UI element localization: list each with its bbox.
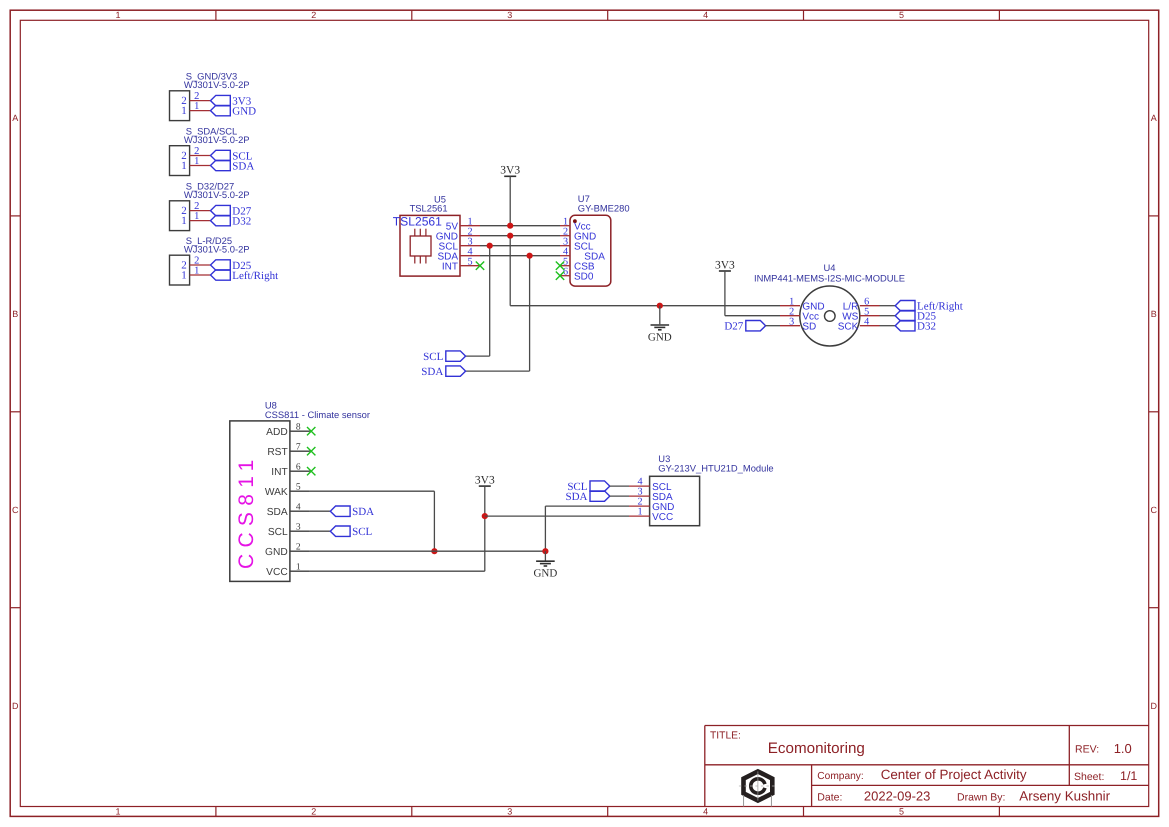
svg-text:SCL: SCL bbox=[352, 526, 372, 538]
svg-text:4: 4 bbox=[703, 10, 708, 20]
svg-text:VCC: VCC bbox=[652, 512, 673, 523]
svg-text:INMP441-MEMS-I2S-MIC-MODULE: INMP441-MEMS-I2S-MIC-MODULE bbox=[754, 273, 905, 284]
svg-text:SDA: SDA bbox=[352, 506, 374, 518]
svg-text:GY-213V_HTU21D_Module: GY-213V_HTU21D_Module bbox=[658, 463, 773, 474]
svg-text:1: 1 bbox=[194, 156, 199, 167]
svg-text:TSL2561: TSL2561 bbox=[410, 202, 448, 213]
svg-text:4: 4 bbox=[703, 806, 708, 816]
svg-text:5: 5 bbox=[467, 256, 472, 267]
svg-text:SDA: SDA bbox=[267, 507, 288, 518]
svg-text:TSL2561: TSL2561 bbox=[393, 215, 442, 229]
svg-text:3V3: 3V3 bbox=[500, 165, 520, 177]
svg-text:CCS811: CCS811 bbox=[235, 453, 258, 569]
svg-text:1.0: 1.0 bbox=[1114, 741, 1132, 756]
svg-text:1: 1 bbox=[181, 160, 187, 172]
svg-text:5: 5 bbox=[899, 806, 904, 816]
svg-text:7: 7 bbox=[296, 443, 301, 453]
svg-text:REV:: REV: bbox=[1075, 744, 1099, 756]
svg-text:SCL: SCL bbox=[423, 351, 443, 363]
svg-text:SD: SD bbox=[802, 321, 816, 332]
svg-text:D: D bbox=[1151, 701, 1158, 711]
svg-text:D32: D32 bbox=[232, 216, 251, 228]
svg-text:SDA: SDA bbox=[565, 491, 587, 503]
svg-text:Company:: Company: bbox=[817, 771, 863, 782]
svg-text:1: 1 bbox=[194, 211, 199, 222]
svg-text:WJ301V-5.0-2P: WJ301V-5.0-2P bbox=[184, 134, 250, 145]
svg-text:Ecomonitoring: Ecomonitoring bbox=[768, 740, 865, 757]
svg-text:Sheet:: Sheet: bbox=[1074, 771, 1104, 783]
svg-text:1: 1 bbox=[181, 105, 187, 117]
svg-text:Drawn By:: Drawn By: bbox=[957, 792, 1005, 804]
svg-text:SD0: SD0 bbox=[574, 271, 594, 282]
svg-text:SDA: SDA bbox=[421, 366, 443, 378]
svg-text:1: 1 bbox=[637, 507, 642, 518]
svg-text:TITLE:: TITLE: bbox=[710, 730, 741, 741]
svg-text:WJ301V-5.0-2P: WJ301V-5.0-2P bbox=[184, 243, 250, 254]
svg-text:4: 4 bbox=[296, 503, 301, 513]
svg-text:D32: D32 bbox=[917, 321, 936, 333]
svg-text:INT: INT bbox=[271, 467, 287, 478]
svg-text:C: C bbox=[1151, 505, 1158, 515]
svg-text:GND: GND bbox=[232, 106, 256, 118]
svg-text:WAK: WAK bbox=[265, 487, 288, 498]
svg-text:Date:: Date: bbox=[817, 792, 842, 804]
svg-text:Left/Right: Left/Right bbox=[232, 270, 278, 282]
svg-text:RST: RST bbox=[267, 447, 287, 458]
svg-text:A: A bbox=[1151, 113, 1157, 123]
svg-text:1: 1 bbox=[194, 101, 199, 112]
svg-text:SDA: SDA bbox=[232, 160, 254, 172]
svg-text:SCK: SCK bbox=[838, 321, 859, 332]
svg-text:GND: GND bbox=[533, 568, 557, 580]
svg-text:A: A bbox=[12, 113, 18, 123]
svg-text:C: C bbox=[12, 505, 19, 515]
svg-text:1: 1 bbox=[296, 563, 301, 573]
svg-text:4: 4 bbox=[864, 316, 869, 327]
svg-text:2022-09-23: 2022-09-23 bbox=[864, 789, 931, 804]
svg-text:GND: GND bbox=[265, 547, 288, 558]
svg-text:ADD: ADD bbox=[266, 427, 288, 438]
svg-text:1: 1 bbox=[181, 215, 187, 227]
svg-text:3: 3 bbox=[507, 10, 512, 20]
svg-text:6: 6 bbox=[296, 463, 301, 473]
svg-text:INT: INT bbox=[442, 261, 458, 272]
svg-text:3: 3 bbox=[507, 806, 512, 816]
svg-text:3V3: 3V3 bbox=[715, 259, 735, 271]
svg-text:WJ301V-5.0-2P: WJ301V-5.0-2P bbox=[184, 79, 250, 90]
svg-text:WJ301V-5.0-2P: WJ301V-5.0-2P bbox=[184, 189, 250, 200]
svg-text:2: 2 bbox=[296, 543, 301, 553]
svg-text:SCL: SCL bbox=[268, 527, 288, 538]
svg-text:D: D bbox=[12, 701, 19, 711]
svg-text:D27: D27 bbox=[724, 321, 743, 333]
svg-text:5: 5 bbox=[296, 483, 301, 493]
svg-text:1/1: 1/1 bbox=[1120, 769, 1137, 783]
svg-text:GND: GND bbox=[648, 331, 672, 343]
svg-text:8: 8 bbox=[296, 423, 301, 433]
svg-text:3: 3 bbox=[296, 523, 301, 533]
svg-text:Center of Project Activity: Center of Project Activity bbox=[881, 767, 1027, 782]
svg-text:B: B bbox=[12, 309, 18, 319]
svg-text:CSS811 - Climate sensor: CSS811 - Climate sensor bbox=[265, 409, 370, 420]
svg-text:1: 1 bbox=[115, 806, 120, 816]
svg-text:3: 3 bbox=[789, 316, 794, 327]
svg-text:5: 5 bbox=[899, 10, 904, 20]
svg-text:B: B bbox=[1151, 309, 1157, 319]
svg-text:1: 1 bbox=[115, 10, 120, 20]
svg-text:1: 1 bbox=[181, 270, 187, 282]
svg-text:3V3: 3V3 bbox=[475, 475, 495, 487]
svg-text:VCC: VCC bbox=[266, 567, 288, 578]
svg-text:1: 1 bbox=[194, 266, 199, 277]
svg-text:2: 2 bbox=[311, 806, 316, 816]
svg-text:GY-BME280: GY-BME280 bbox=[578, 203, 630, 214]
svg-text:Arseny Kushnir: Arseny Kushnir bbox=[1019, 789, 1110, 804]
svg-text:2: 2 bbox=[311, 10, 316, 20]
